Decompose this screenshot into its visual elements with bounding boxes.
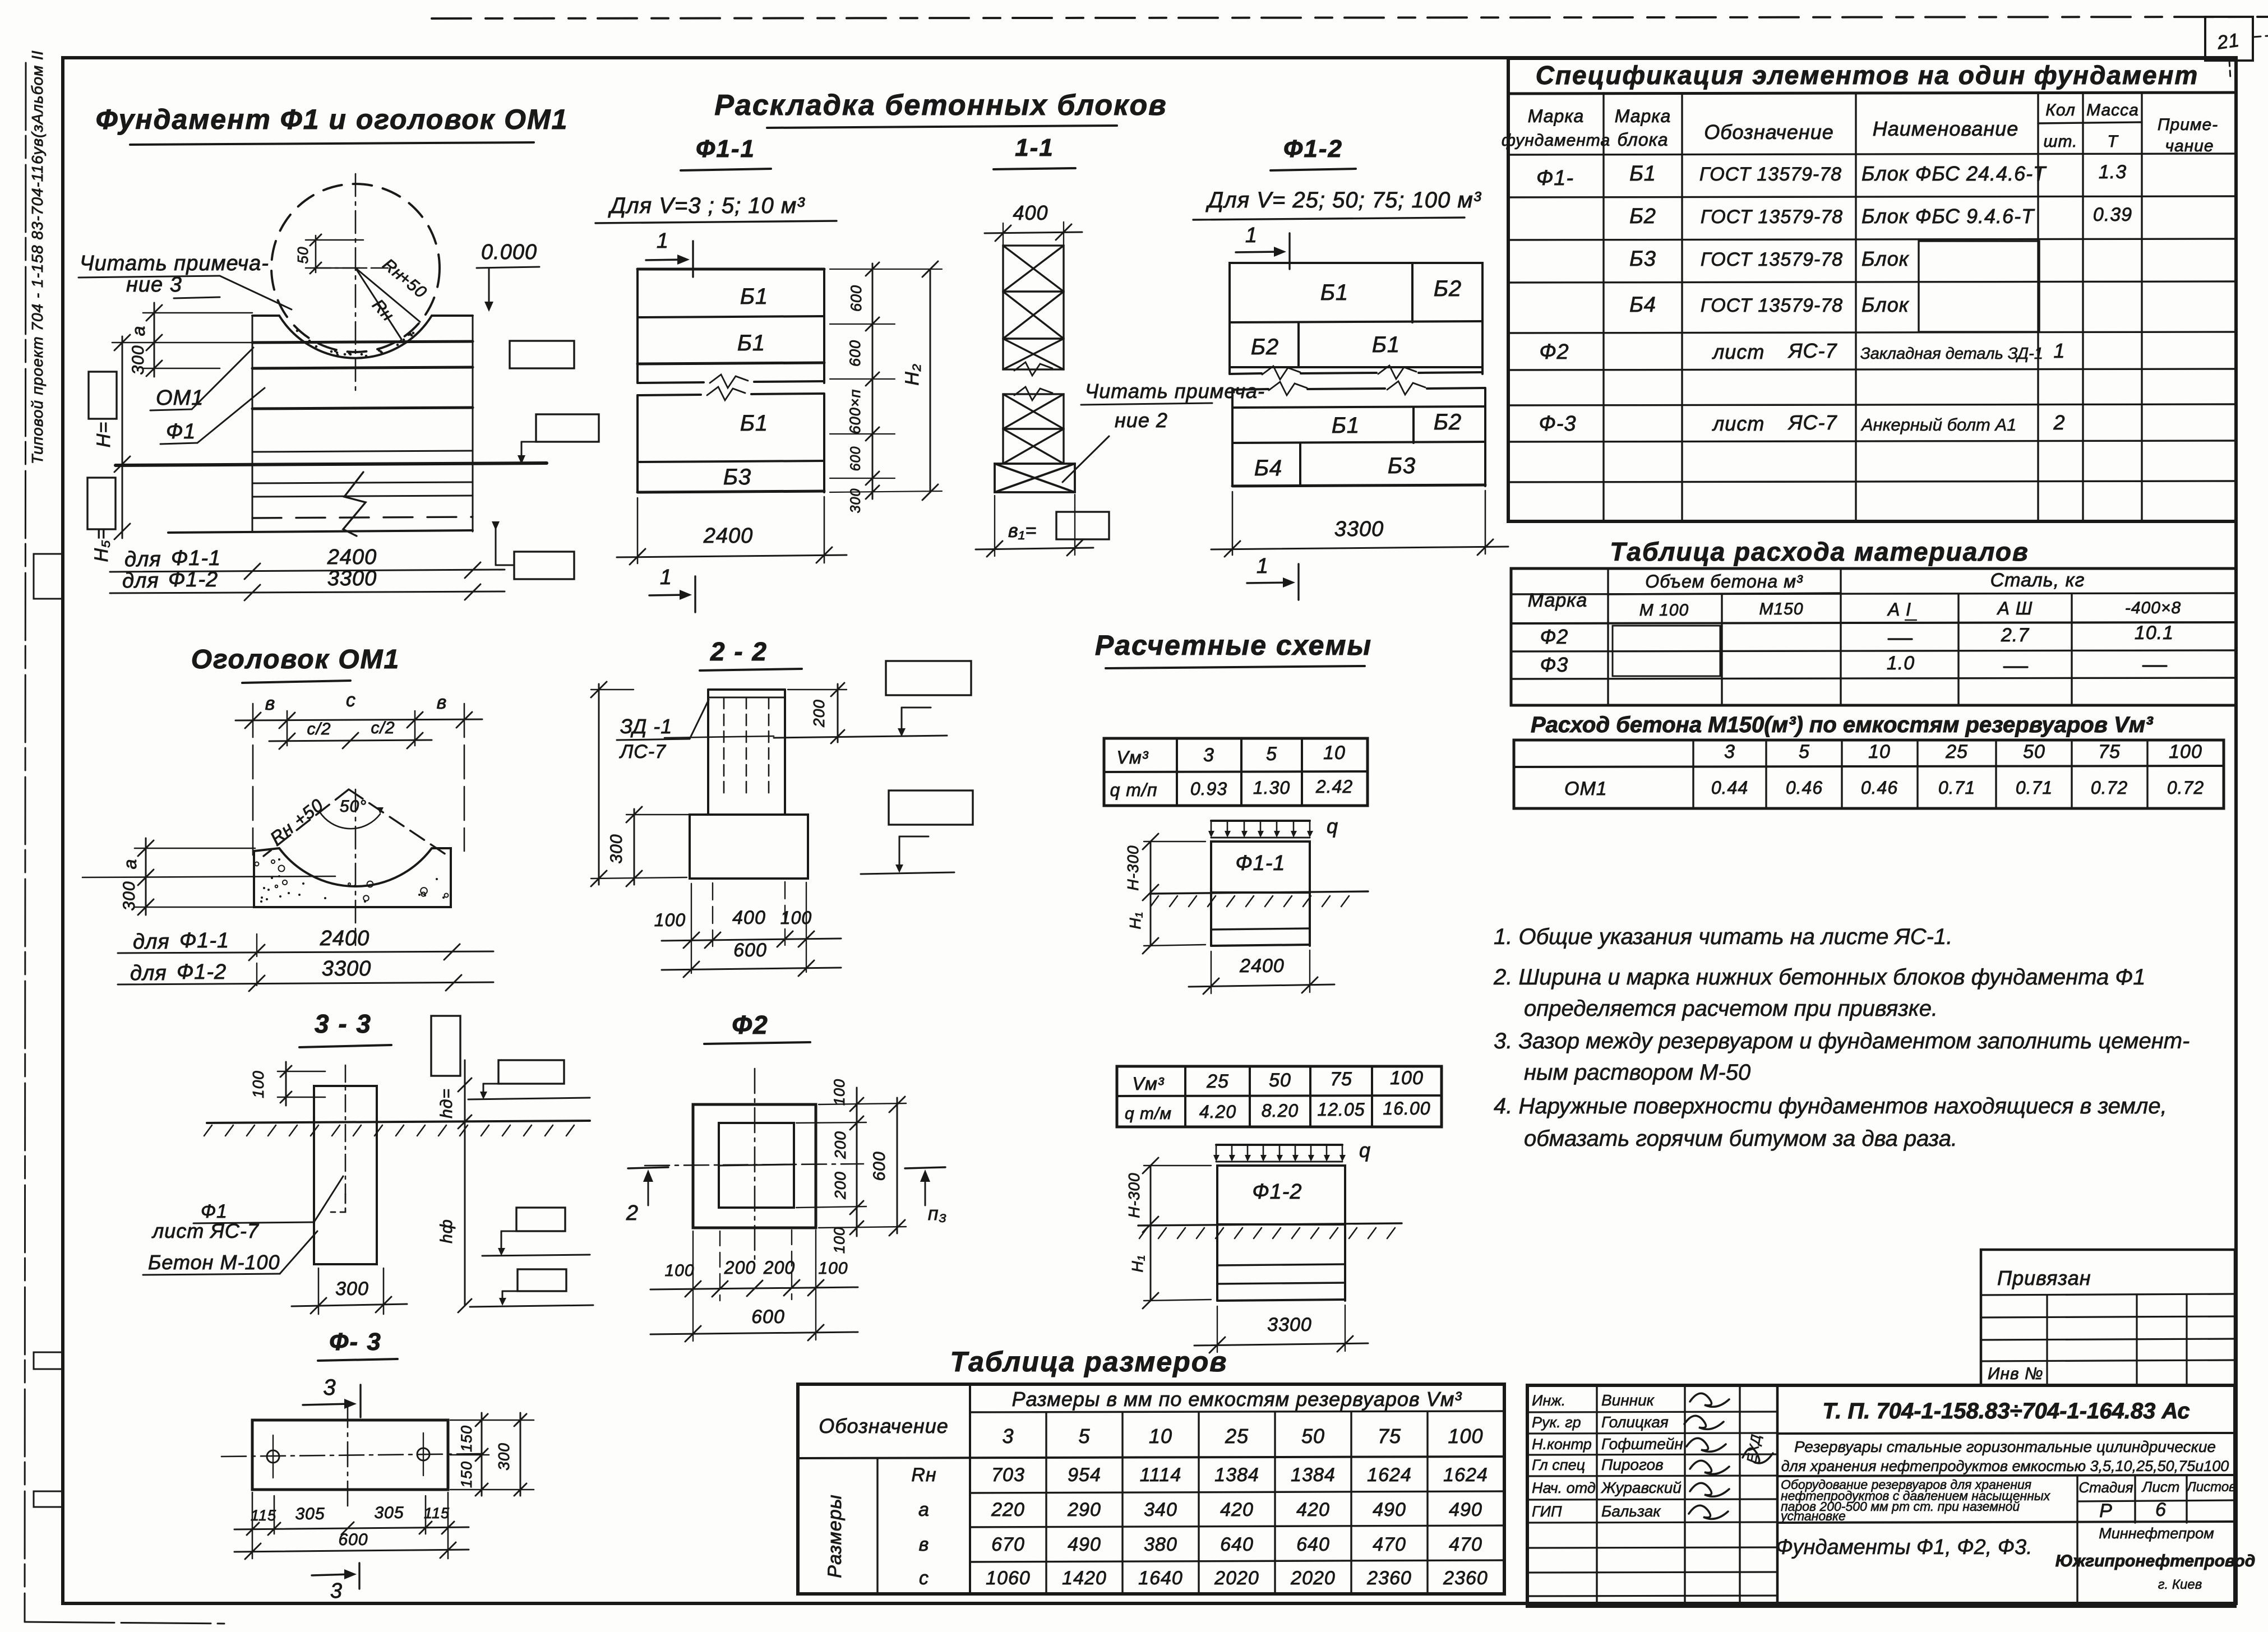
svg-text:400: 400 (1013, 201, 1048, 224)
svg-text:Бальзак: Бальзак (1601, 1502, 1661, 1520)
svg-text:Фундамент Ф1 и оголовок ОМ1: Фундамент Ф1 и оголовок ОМ1 (96, 104, 569, 135)
svg-text:Б4: Б4 (1254, 456, 1282, 480)
svg-text:для хранения нефтепродуктов ем: для хранения нефтепродуктов емкостью 3,5… (1781, 1458, 2229, 1474)
svg-text:Обозначение: Обозначение (1704, 121, 1834, 144)
svg-text:21: 21 (2215, 30, 2241, 54)
svg-text:в: в (437, 692, 447, 713)
svg-text:2360: 2360 (1443, 1568, 1488, 1589)
Ф2 section marks 2 (626, 1167, 947, 1225)
svg-text:3300: 3300 (1334, 517, 1384, 541)
svg-text:г. Киев: г. Киев (2158, 1577, 2202, 1592)
svg-text:Для V=3 ; 5; 10 м³: Для V=3 ; 5; 10 м³ (608, 193, 805, 218)
ОМ1 left dims a 300 (82, 838, 335, 915)
title: 2-2 (700, 637, 802, 671)
2-2 pedestal (664, 690, 808, 879)
Ф1-1 block stack upper (638, 269, 824, 388)
title: Ф2 (704, 1010, 810, 1044)
svg-text:8.20: 8.20 (1262, 1101, 1299, 1121)
svg-text:Размеры в мм по емкостям: Размеры в мм по емкостям резервуаров Vм³ (1012, 1388, 1462, 1411)
svg-text:Ф1-2: Ф1-2 (1283, 135, 1343, 163)
dim chain 600/600/600xn/600/300 (830, 262, 895, 513)
svg-text:1384: 1384 (1214, 1464, 1259, 1486)
svg-text:100: 100 (2169, 741, 2202, 762)
svg-text:Марка: Марка (1528, 590, 1588, 611)
svg-text:Таблица расхода материалов: Таблица расхода материалов (1610, 537, 2029, 566)
svg-text:q: q (1327, 815, 1338, 838)
svg-text:Н₁: Н₁ (1129, 1255, 1146, 1272)
svg-text:6: 6 (2155, 1499, 2167, 1520)
svg-text:Блок: Блок (1861, 293, 1910, 316)
svg-text:Ф1-2: Ф1-2 (168, 568, 218, 591)
leader Читать примечание 2 (1063, 380, 1265, 482)
svg-text:3: 3 (330, 1579, 343, 1603)
svg-text:Миннефтепром: Миннефтепром (2099, 1525, 2214, 1542)
table: Привязан (1981, 1250, 2235, 1385)
subtitle Ф1-2 (1271, 135, 1356, 170)
svg-text:1420: 1420 (1062, 1568, 1107, 1589)
svg-text:hд=: hд= (437, 1088, 456, 1118)
svg-text:100: 100 (831, 1079, 848, 1106)
svg-text:100: 100 (818, 1259, 848, 1278)
leader: Читать примечание 3 (78, 252, 292, 309)
svg-text:для: для (124, 548, 161, 571)
svg-text:420: 420 (1296, 1499, 1330, 1520)
1-1 column with X bracing (995, 246, 1075, 492)
svg-text:Марка: Марка (1615, 106, 1671, 126)
svg-text:Резервуары стальные горизонта: Резервуары стальные горизонтальные цилин… (1794, 1438, 2216, 1455)
svg-text:25: 25 (1225, 1425, 1249, 1448)
svg-text:115: 115 (251, 1507, 276, 1524)
svg-text:Гофштейн: Гофштейн (1601, 1435, 1683, 1453)
scheme Ф1-2 dims H-300 H1 3300 (1125, 1158, 1368, 1353)
svg-text:Инв №: Инв № (1988, 1365, 2043, 1383)
svg-text:ГОСТ 13579-78: ГОСТ 13579-78 (1701, 295, 1843, 316)
svg-text:600: 600 (870, 1151, 889, 1181)
svg-text:1. Общие указания читать н: 1. Общие указания читать на листе ЯС-1. (1494, 924, 1952, 949)
svg-text:лист ЯС-7: лист ЯС-7 (151, 1219, 260, 1242)
svg-text:100: 100 (654, 910, 686, 930)
svg-text:0.44: 0.44 (1711, 778, 1748, 798)
svg-text:Б2: Б2 (1434, 276, 1462, 301)
leader Ф1 (160, 388, 265, 444)
svg-text:305: 305 (295, 1505, 325, 1523)
svg-text:0.71: 0.71 (2016, 778, 2053, 798)
svg-text:Б1: Б1 (737, 331, 765, 355)
svg-text:1624: 1624 (1443, 1464, 1488, 1486)
svg-text:Листов: Листов (2186, 1480, 2235, 1495)
sheet top edge dashed (432, 17, 2268, 19)
svg-text:100: 100 (1390, 1067, 1424, 1089)
svg-text:Стадия: Стадия (2078, 1479, 2133, 1496)
svg-text:Спецификация элементов на о: Спецификация элементов на один фундамент (1536, 61, 2199, 90)
svg-text:1060: 1060 (986, 1568, 1031, 1589)
svg-text:1: 1 (660, 566, 672, 589)
svg-text:ГОСТ 13579-78: ГОСТ 13579-78 (1701, 249, 1843, 270)
svg-text:300: 300 (495, 1443, 512, 1471)
svg-text:4.20: 4.20 (1199, 1102, 1236, 1122)
svg-text:для: для (130, 961, 167, 985)
svg-text:Сталь, кг: Сталь, кг (1990, 570, 2085, 591)
svg-text:150: 150 (458, 1461, 475, 1488)
scheme Ф1-1 dims H-300 H1 2400 (1124, 834, 1334, 994)
svg-text:Н=: Н= (93, 422, 114, 447)
svg-text:Б1: Б1 (1372, 332, 1400, 357)
svg-text:1114: 1114 (1140, 1464, 1182, 1486)
Ф-3 bottom dims 115 305 305 115 / 840 (234, 1492, 469, 1559)
svg-text:ЯС-7: ЯС-7 (1787, 411, 1838, 434)
svg-text:в: в (265, 693, 276, 714)
svg-text:Ф1-1: Ф1-1 (696, 135, 755, 163)
svg-text:0.39: 0.39 (2093, 204, 2132, 225)
svg-text:Н₅=: Н₅= (91, 528, 112, 562)
svg-text:Н-300: Н-300 (1125, 1172, 1143, 1218)
foundation elevation Ф1 (116, 316, 547, 536)
svg-text:3300: 3300 (327, 567, 377, 590)
svg-text:ГОСТ 13579-78: ГОСТ 13579-78 (1701, 206, 1843, 228)
svg-text:для: для (122, 569, 159, 593)
Ф1-2 dim 3300 (1211, 491, 1508, 557)
2-2 left overall dim (591, 682, 687, 886)
svg-text:50°: 50° (340, 797, 367, 816)
title: Расчетные схемы (1095, 630, 1372, 668)
svg-text:490: 490 (1068, 1534, 1101, 1555)
svg-text:Марка: Марка (1528, 106, 1585, 126)
svg-text:ЛС-7: ЛС-7 (619, 741, 666, 762)
svg-text:с: с (346, 690, 356, 711)
svg-text:600: 600 (847, 340, 863, 367)
svg-text:Ф3: Ф3 (1540, 653, 1569, 676)
svg-text:340: 340 (1144, 1499, 1177, 1520)
Ф1-2 stack upper (1230, 263, 1482, 380)
left margin vertical text (29, 50, 46, 464)
svg-text:600: 600 (848, 446, 863, 471)
svg-text:Ф- 3: Ф- 3 (329, 1328, 382, 1356)
subtitle Для V=3; 5; 10 м³ (595, 193, 837, 223)
table: расход бетона (1514, 740, 2224, 808)
svg-text:2.42: 2.42 (1315, 776, 1353, 797)
svg-text:Кол: Кол (2045, 101, 2076, 119)
svg-text:Б2: Б2 (1629, 205, 1656, 228)
svg-text:600: 600 (733, 940, 767, 961)
svg-text:Б3: Б3 (1629, 247, 1656, 271)
svg-text:Б2: Б2 (1434, 410, 1462, 434)
svg-text:200: 200 (810, 699, 828, 728)
svg-text:1640: 1640 (1138, 1568, 1183, 1589)
svg-text:М150: М150 (1759, 600, 1803, 618)
svg-text:2400: 2400 (327, 545, 377, 569)
Ф-3 section mark 3 (bottom) (312, 1563, 359, 1603)
svg-text:А I: А I (1887, 599, 1911, 619)
Ф2 right dim chain 100/200/200/100 600 (796, 1079, 906, 1254)
1-1 dim в1= (976, 494, 1109, 557)
section mark 1 (bottom of Ф1-2) (1247, 554, 1299, 600)
subtitle 1-1 (994, 134, 1075, 169)
svg-text:1: 1 (1257, 554, 1269, 578)
title: Раскладка бетонных блоков (714, 89, 1167, 128)
svg-text:в: в (919, 1534, 930, 1555)
svg-text:q т/п: q т/п (1110, 780, 1158, 800)
1-1 dim 400 (985, 201, 1082, 246)
sheet left edge (25, 63, 224, 1624)
svg-text:q: q (1359, 1139, 1371, 1162)
svg-text:установке: установке (1780, 1509, 1846, 1523)
svg-text:5: 5 (1266, 743, 1277, 765)
svg-text:100: 100 (250, 1070, 267, 1098)
ОМ1 centreline (355, 789, 357, 945)
svg-text:3: 3 (1002, 1425, 1014, 1448)
svg-text:380: 380 (1144, 1534, 1177, 1555)
svg-text:Масса: Масса (2086, 101, 2139, 119)
svg-text:определяется расчетом при п: определяется расчетом при привязке. (1524, 996, 1938, 1021)
svg-text:ЗД -1: ЗД -1 (620, 715, 672, 738)
3-3 leader Ф1 / лист ЯС-7 (151, 1176, 343, 1242)
svg-text:А Ш: А Ш (1997, 598, 2033, 618)
svg-text:Н₂: Н₂ (902, 363, 923, 386)
svg-text:Rн: Rн (911, 1464, 936, 1486)
title block (основная надпись) (1527, 1385, 2255, 1606)
title: Оголовок ОМ1 (191, 645, 400, 683)
svg-text:Оголовок ОМ1: Оголовок ОМ1 (191, 645, 400, 674)
title: Ф-3 (318, 1328, 398, 1361)
left edge registration boxes (34, 554, 63, 1507)
svg-text:3300: 3300 (322, 957, 372, 981)
svg-text:Б1: Б1 (1320, 280, 1348, 305)
svg-text:1.30: 1.30 (1253, 778, 1290, 798)
svg-text:3. Зазор между резервуаром: 3. Зазор между резервуаром и фундаментом… (1494, 1029, 2190, 1053)
elevation left dim H, H5 (87, 335, 130, 562)
svg-text:100: 100 (831, 1227, 848, 1254)
svg-text:ОМ1: ОМ1 (1564, 778, 1608, 799)
svg-text:Ф1-2: Ф1-2 (1252, 1180, 1302, 1204)
section mark 1 (top of Ф1-1) (646, 229, 693, 277)
svg-text:2: 2 (2053, 411, 2065, 434)
Ф2 bottom dims 100/200/200/100 600 (650, 1230, 858, 1342)
svg-text:Т. П. 704-1-158.83÷704-1-164.: Т. П. 704-1-158.83÷704-1-164.83 Ас (1822, 1399, 2190, 1423)
svg-text:1: 1 (657, 229, 669, 253)
svg-text:1.0: 1.0 (1887, 653, 1915, 674)
svg-text:Б1: Б1 (1332, 413, 1360, 438)
svg-text:Винник: Винник (1601, 1391, 1655, 1409)
ОМ1 sector Rн+50 50° (264, 789, 446, 856)
svg-text:600×п: 600×п (847, 389, 863, 434)
svg-text:290: 290 (1067, 1499, 1101, 1520)
svg-text:75: 75 (2098, 741, 2121, 762)
load table V 3/5/10 (1104, 738, 1368, 806)
svg-text:0.72: 0.72 (2091, 778, 2128, 798)
notes 1-4 (1493, 924, 2190, 1151)
elevation left dims a,300 (112, 303, 252, 377)
svg-text:470: 470 (1449, 1534, 1482, 1555)
svg-text:ГОСТ 13579-78: ГОСТ 13579-78 (1699, 164, 1842, 185)
svg-text:1.3: 1.3 (2099, 161, 2127, 183)
svg-text:Лист: Лист (2141, 1478, 2180, 1495)
svg-text:Типовой проект 704 - 1-1: Типовой проект 704 - 1-158 83-704-116ув(… (29, 50, 46, 464)
title: 3-3 (299, 1009, 391, 1047)
svg-text:12.05: 12.05 (1317, 1099, 1365, 1120)
svg-text:Ф2: Ф2 (1539, 340, 1569, 364)
svg-text:50: 50 (1301, 1425, 1325, 1448)
svg-text:3300: 3300 (1267, 1314, 1312, 1335)
svg-text:Б1: Б1 (1629, 162, 1656, 186)
svg-text:hф: hф (437, 1219, 456, 1243)
svg-text:3 - 3: 3 - 3 (315, 1009, 372, 1038)
svg-text:470: 470 (1373, 1534, 1406, 1555)
svg-text:лист: лист (1712, 412, 1764, 435)
svg-text:1: 1 (2053, 339, 2065, 362)
svg-text:Таблица размеров: Таблица размеров (950, 1346, 1228, 1377)
leader ОМ1 (150, 348, 253, 410)
svg-text:2400: 2400 (320, 927, 370, 950)
svg-text:с: с (919, 1568, 929, 1589)
svg-text:Блок: Блок (1861, 247, 1910, 270)
svg-text:Рук. гр: Рук. гр (1532, 1414, 1581, 1431)
svg-text:2400: 2400 (703, 524, 754, 548)
svg-text:Б1: Б1 (740, 411, 768, 436)
dim H2 (830, 261, 942, 500)
leader ЗД-1 / ЛС-7 (617, 700, 709, 762)
svg-text:3: 3 (323, 1375, 336, 1400)
scheme Ф1-2: load + box + ground (1138, 1139, 1402, 1301)
svg-text:Т: Т (2107, 132, 2119, 151)
title: Расход бетона М150(м³) по емкостям резервуаров Vм³ (1531, 713, 2154, 737)
svg-text:0.72: 0.72 (2167, 778, 2204, 798)
svg-text:420: 420 (1220, 1499, 1254, 1520)
ОМ1 cap (concrete) (254, 848, 451, 907)
svg-text:703: 703 (991, 1464, 1025, 1486)
svg-text:Читать примеча-: Читать примеча- (80, 252, 269, 275)
tank circle (dashed) (271, 174, 440, 392)
svg-text:фундамента: фундамента (1502, 131, 1610, 150)
svg-text:50: 50 (1269, 1070, 1291, 1091)
table: Спецификация элементов на один фундамент (1502, 58, 2236, 521)
svg-text:Н.контр: Н.контр (1532, 1436, 1592, 1453)
svg-text:п₃: п₃ (928, 1203, 947, 1224)
svg-text:100: 100 (780, 908, 812, 928)
3-3 pier section (204, 1062, 590, 1264)
Ф-3 section mark 3 (top) (303, 1375, 361, 1417)
Ф1-1 block stack lower (638, 387, 824, 492)
svg-text:600: 600 (338, 1531, 368, 1549)
svg-text:10: 10 (1868, 741, 1891, 762)
svg-text:3: 3 (1203, 745, 1214, 766)
svg-text:25: 25 (1945, 741, 1968, 762)
svg-text:0.46: 0.46 (1786, 778, 1823, 798)
svg-text:2. Ширина и марка нижних: 2. Ширина и марка нижних бетонных блоков… (1493, 965, 2145, 990)
svg-text:10: 10 (1149, 1425, 1172, 1448)
svg-text:Блок ФБС 24.4.6-Т: Блок ФБС 24.4.6-Т (1861, 162, 2047, 185)
svg-text:2 - 2: 2 - 2 (710, 637, 768, 666)
svg-text:ние 2: ние 2 (1115, 409, 1168, 432)
svg-text:2: 2 (626, 1201, 639, 1225)
svg-text:200: 200 (832, 1131, 849, 1159)
svg-text:600: 600 (751, 1306, 785, 1328)
section mark 1 (bottom of Ф1-1) (649, 566, 695, 612)
svg-text:1: 1 (1245, 224, 1258, 247)
elevation mark 0.000 (477, 241, 539, 312)
svg-text:ЯС-7: ЯС-7 (1787, 339, 1838, 362)
svg-text:0.71: 0.71 (1938, 778, 1975, 798)
svg-text:Объем бетона м³: Объем бетона м³ (1645, 571, 1803, 591)
svg-text:Vм³: Vм³ (1117, 747, 1149, 768)
svg-text:Фундаменты Ф1, Ф2, Ф3.: Фундаменты Ф1, Ф2, Ф3. (1776, 1536, 2032, 1559)
svg-text:Журавский: Журавский (1600, 1479, 1682, 1496)
2-2 callout rects + level arrows (861, 661, 973, 874)
svg-text:для: для (133, 930, 170, 954)
svg-text:Обозначение: Обозначение (819, 1414, 949, 1437)
svg-text:ГИП: ГИП (1532, 1503, 1562, 1520)
svg-text:2020: 2020 (1214, 1568, 1259, 1589)
3-3 dim 300 (292, 1268, 407, 1314)
svg-text:300: 300 (129, 345, 147, 375)
2-2 bottom dims 100 400 100 / 600 (654, 882, 841, 977)
svg-text:Привязан: Привязан (1997, 1266, 2091, 1289)
svg-text:10: 10 (1323, 742, 1346, 764)
svg-text:115: 115 (424, 1505, 450, 1522)
svg-text:Б3: Б3 (723, 465, 751, 489)
svg-text:Голицкая: Голицкая (1601, 1413, 1669, 1431)
svg-text:5: 5 (1799, 741, 1810, 762)
svg-text:50: 50 (2023, 741, 2045, 762)
svg-text:q т/м: q т/м (1125, 1104, 1172, 1123)
svg-text:954: 954 (1068, 1464, 1101, 1486)
svg-text:4. Наружные поверхности фун: 4. Наружные поверхности фундаментов нахо… (1494, 1094, 2167, 1118)
svg-text:200: 200 (763, 1257, 795, 1278)
3-3 right dims hд hф (431, 1016, 593, 1312)
svg-text:Читать примеча-: Читать примеча- (1085, 380, 1265, 403)
svg-text:а: а (120, 859, 140, 870)
svg-text:1384: 1384 (1291, 1464, 1336, 1486)
ОМ1 top dims в c/2 c/2 в (235, 690, 482, 855)
svg-text:Ф1-1: Ф1-1 (179, 929, 229, 953)
svg-text:100: 100 (1448, 1425, 1483, 1448)
svg-text:300: 300 (335, 1278, 369, 1300)
svg-text:Н₁: Н₁ (1126, 912, 1144, 929)
svg-text:в₁=: в₁= (1008, 520, 1037, 542)
svg-text:Южгипронефтепровод: Южгипронефтепровод (2055, 1552, 2256, 1570)
svg-text:Приме-: Приме- (2158, 115, 2218, 134)
svg-text:ОМ1: ОМ1 (156, 386, 204, 410)
svg-text:Н-300: Н-300 (1124, 845, 1142, 890)
svg-text:Ф1-1: Ф1-1 (171, 547, 221, 570)
svg-text:шт.: шт. (2044, 132, 2078, 151)
svg-text:2.7: 2.7 (2001, 625, 2029, 646)
svg-text:Гл спец: Гл спец (1532, 1457, 1585, 1473)
svg-text:0.000: 0.000 (481, 241, 537, 264)
svg-text:ным раствором М-50: ным раствором М-50 (1524, 1060, 1750, 1085)
svg-text:50: 50 (294, 247, 311, 264)
svg-text:а: а (128, 326, 149, 336)
svg-text:Ф-3: Ф-3 (1539, 412, 1577, 436)
svg-text:0.93: 0.93 (1190, 779, 1227, 799)
table: размеров (798, 1384, 1504, 1594)
svg-text:2360: 2360 (1366, 1568, 1412, 1589)
section mark 1 (top of Ф1-2) (1236, 224, 1290, 269)
svg-text:25: 25 (1206, 1071, 1229, 1092)
svg-text:Р: Р (2099, 1500, 2113, 1522)
Ф-3 right dims 150 150 300 (450, 1413, 534, 1496)
svg-text:М 100: М 100 (1639, 601, 1689, 619)
svg-text:0.46: 0.46 (1861, 778, 1898, 798)
svg-text:300: 300 (607, 834, 626, 863)
2-2 dim 300 (607, 807, 689, 886)
svg-text:Расход бетона М150(м³) по: Расход бетона М150(м³) по емкостям резер… (1531, 713, 2154, 737)
svg-text:Инж.: Инж. (1532, 1392, 1565, 1409)
svg-text:блока: блока (1617, 130, 1668, 150)
svg-text:Бетон М-100: Бетон М-100 (148, 1251, 280, 1274)
elevation right callouts (492, 341, 599, 579)
Ф2 plan squares (645, 1069, 863, 1265)
svg-text:Размеры: Размеры (824, 1494, 846, 1578)
